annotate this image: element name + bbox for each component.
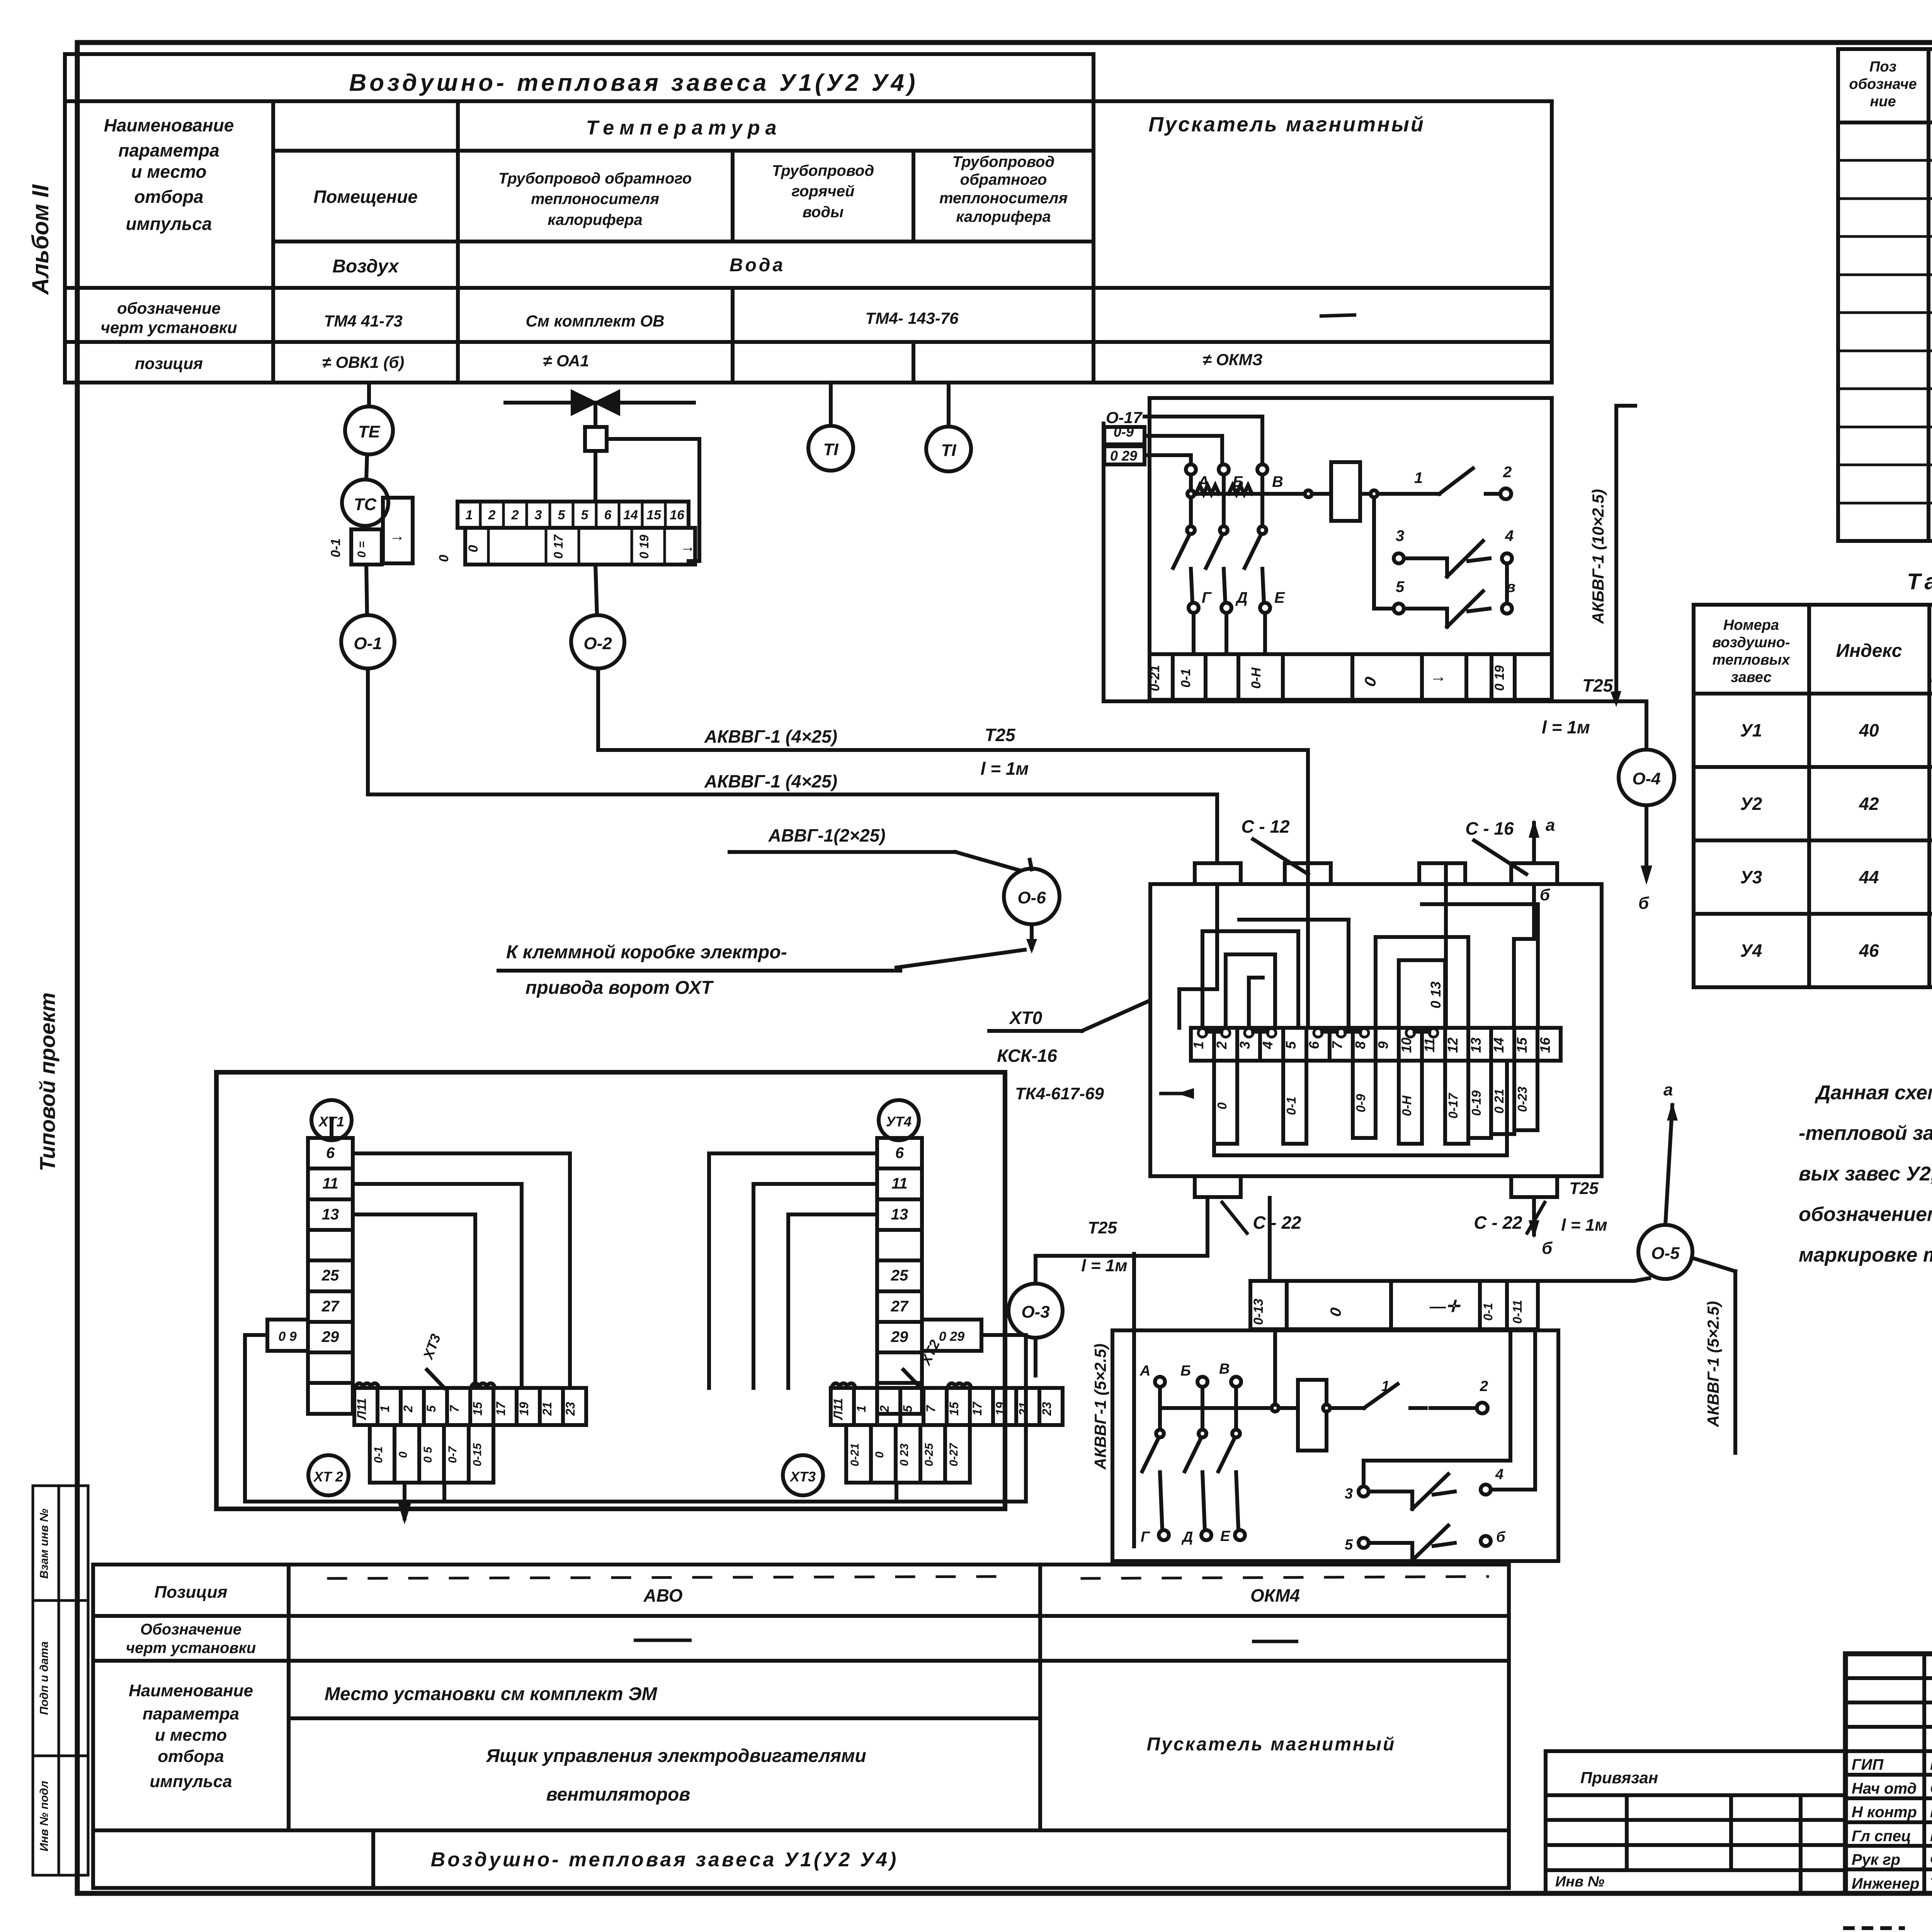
svg-text:0-25: 0-25 [923,1443,935,1466]
svg-text:б: б [1638,894,1650,913]
svg-text:завес: завес [1731,669,1771,685]
svg-text:Обозначение: Обозначение [140,1621,241,1638]
svg-text:АКВВГ-1 (5×2.5): АКВВГ-1 (5×2.5) [1704,1301,1722,1427]
svg-text:Температура: Температура [586,117,782,139]
svg-text:Трубопровод обратного: Трубопровод обратного [498,170,692,187]
svg-text:Привязан: Привязан [1580,1769,1658,1787]
svg-text:2: 2 [1214,1041,1230,1049]
svg-text:О-4: О-4 [1632,769,1660,788]
svg-text:Индекс: Индекс [1836,641,1902,661]
svg-text:АВО: АВО [643,1585,682,1605]
svg-text:воды: воды [803,204,844,221]
svg-text:Инв №: Инв № [1555,1874,1604,1890]
svg-text:импульса: импульса [150,1772,232,1791]
svg-text:1: 1 [1381,1378,1389,1395]
svg-text:Типовой проект: Типовой проект [35,992,60,1171]
svg-text:обозначе: обозначе [1849,76,1917,92]
svg-text:калорифера: калорифера [548,211,642,228]
svg-text:Т25: Т25 [1582,675,1614,696]
svg-text:Инженер: Инженер [1852,1875,1919,1892]
svg-text:Б: Б [1233,473,1243,490]
svg-text:2: 2 [401,1405,415,1413]
svg-text:Т25: Т25 [985,725,1016,745]
svg-text:29: 29 [321,1328,339,1345]
svg-text:калорифера: калорифера [956,208,1051,225]
svg-text:Трубопровод: Трубопровод [952,153,1054,170]
svg-text:С - 22: С - 22 [1253,1213,1301,1233]
svg-text:19: 19 [993,1402,1007,1416]
svg-text:13: 13 [891,1206,908,1223]
svg-text:Л11: Л11 [831,1398,845,1420]
svg-text:в: в [1506,578,1515,595]
svg-text:0 9: 0 9 [278,1329,296,1344]
svg-text:импульса: импульса [126,214,212,234]
svg-text:Н контр: Н контр [1852,1804,1917,1821]
svg-text:параметра: параметра [118,140,219,160]
svg-text:19: 19 [517,1402,531,1416]
svg-text:Инв № подл: Инв № подл [38,1781,51,1851]
svg-text:А: А [1139,1363,1150,1379]
svg-text:С - 12: С - 12 [1241,816,1290,837]
svg-text:У4: У4 [1740,940,1762,961]
svg-text:l = 1м: l = 1м [1081,1256,1127,1275]
svg-text:вых завес У2, У3, У4 с: вых завес У2, У3, У4 с указанием в 0 инд… [1799,1163,1932,1185]
svg-text:Д: Д [1235,589,1248,606]
svg-text:l = 1м: l = 1м [1561,1216,1607,1235]
svg-text:13: 13 [322,1206,339,1223]
svg-text:0 19: 0 19 [1492,665,1507,691]
svg-text:Т25: Т25 [1088,1218,1117,1237]
svg-text:29: 29 [891,1328,908,1345]
svg-text:теплоносителя: теплоносителя [531,190,659,207]
svg-text:б: б [1496,1529,1506,1545]
svg-text:воздушно-: воздушно- [1712,634,1790,651]
svg-text:отбора: отбора [158,1747,224,1766]
svg-text:0-15: 0-15 [471,1443,484,1466]
svg-text:О-3: О-3 [1021,1303,1049,1321]
svg-text:25: 25 [321,1267,339,1284]
svg-text:5: 5 [901,1405,915,1412]
svg-text:15: 15 [646,508,662,522]
svg-text:Е: Е [1274,589,1285,606]
svg-text:40: 40 [1859,720,1879,740]
svg-text:АКВВГ-1 (4×25): АКВВГ-1 (4×25) [704,726,837,747]
svg-text:2: 2 [1503,464,1512,481]
svg-text:4: 4 [1505,527,1514,544]
svg-text:—✛: —✛ [1429,1297,1461,1315]
svg-text:7: 7 [1329,1041,1345,1049]
svg-text:→: → [1430,667,1447,686]
svg-text:Номера: Номера [1723,617,1779,633]
svg-text:5: 5 [558,508,566,522]
svg-text:обозначением аппаратов , п: обозначением аппаратов , приборов и клем… [1799,1203,1932,1226]
svg-text:0 13: 0 13 [1428,981,1444,1009]
svg-text:маркировке траса согласно: маркировке траса согласно таблице примен… [1799,1244,1932,1266]
svg-text:6: 6 [1306,1041,1322,1049]
svg-text:0-9: 0-9 [1354,1094,1368,1112]
svg-text:21: 21 [1017,1402,1031,1416]
svg-text:привода ворот ОХТ: привода ворот ОХТ [526,978,714,998]
svg-text:Альбом II: Альбом II [27,184,53,295]
svg-text:10: 10 [1398,1037,1414,1053]
svg-text:б: б [1540,886,1550,904]
svg-text:23: 23 [563,1402,577,1416]
svg-text:ТІ: ТІ [823,440,838,459]
svg-text:46: 46 [1859,940,1879,961]
svg-text:ТЕ: ТЕ [358,422,381,441]
svg-text:5: 5 [581,508,589,522]
svg-text:1: 1 [1414,469,1423,486]
svg-text:3: 3 [535,508,542,522]
svg-text:вентиляторов: вентиляторов [546,1784,690,1805]
svg-text:0-21: 0-21 [849,1443,861,1466]
svg-text:У3: У3 [1740,867,1762,887]
svg-text:отбора: отбора [134,187,203,207]
svg-text:l = 1м: l = 1м [1542,717,1590,737]
svg-text:0: 0 [873,1451,886,1458]
svg-text:21: 21 [540,1402,554,1416]
svg-text:2: 2 [511,508,519,522]
svg-text:ТМ4- 143-76: ТМ4- 143-76 [866,309,959,327]
svg-text:0-27: 0-27 [947,1443,960,1466]
svg-text:0-Н: 0-Н [1249,667,1264,689]
svg-text:0: 0 [1215,1102,1229,1109]
svg-text:0-23: 0-23 [1515,1087,1529,1112]
svg-text:Тихонова: Тихонова [1930,1875,1932,1892]
svg-text:1: 1 [466,508,473,522]
svg-text:А: А [1197,473,1209,490]
svg-text:0 21: 0 21 [1492,1089,1506,1114]
svg-text:6: 6 [895,1145,904,1162]
svg-text:4: 4 [1260,1041,1276,1049]
svg-text:15: 15 [471,1401,485,1416]
svg-text:0-1: 0-1 [1179,668,1193,687]
svg-text:Кирсанов: Кирсанов [1930,1756,1932,1773]
svg-text:4: 4 [1495,1466,1503,1483]
svg-text:0-1: 0-1 [372,1446,385,1463]
svg-text:Помещение: Помещение [313,187,418,207]
svg-text:27: 27 [321,1298,340,1315]
svg-text:АКБВГ-1 (10×2.5): АКБВГ-1 (10×2.5) [1589,489,1607,624]
svg-text:7: 7 [447,1405,461,1412]
svg-text:Воздух: Воздух [332,256,400,277]
svg-text:5: 5 [1396,578,1405,595]
svg-text:Вода: Вода [730,255,785,276]
svg-text:горячей: горячей [792,183,855,200]
svg-text:44: 44 [1859,867,1879,887]
svg-text:0-17: 0-17 [1446,1092,1460,1119]
svg-text:Взам инв №: Взам инв № [38,1509,51,1578]
svg-text:ХТ0: ХТ0 [1009,1008,1043,1028]
svg-text:В: В [1272,473,1283,490]
svg-text:5: 5 [1345,1537,1353,1553]
svg-text:ХТ3: ХТ3 [789,1469,816,1485]
svg-text:l = 1м: l = 1м [981,759,1029,779]
svg-text:16: 16 [1537,1037,1553,1053]
svg-text:Воздушно- тепловая завеса У: Воздушно- тепловая завеса У1(У2 У4) [431,1849,899,1871]
svg-text:теплоносителя: теплоносителя [939,190,1068,207]
svg-text:Федорков: Федорков [1930,1851,1932,1868]
svg-text:0: 0 [466,545,481,552]
svg-text:Е: Е [1220,1528,1231,1544]
svg-text:АВВГ-1(2×25): АВВГ-1(2×25) [768,825,885,845]
svg-text:0 =: 0 = [355,541,368,558]
svg-text:Нач отд: Нач отд [1852,1780,1917,1797]
svg-text:параметра: параметра [143,1704,239,1723]
svg-text:6: 6 [604,508,612,522]
svg-text:5: 5 [1283,1041,1299,1049]
svg-text:Ящик управления электродвиг: Ящик управления электродвигателями [485,1746,866,1766]
svg-text:ГИП: ГИП [1852,1756,1884,1773]
svg-text:АКВВГ-1 (5×2.5): АКВВГ-1 (5×2.5) [1091,1344,1109,1470]
svg-text:0: 0 [397,1451,410,1458]
svg-text:К клеммной коробке электр: К клеммной коробке электро- [506,942,787,963]
svg-text:17: 17 [970,1401,984,1416]
svg-text:КСК-16: КСК-16 [997,1046,1057,1066]
svg-text:тепловых: тепловых [1713,652,1791,668]
svg-text:42: 42 [1859,794,1879,814]
svg-text:11: 11 [322,1175,338,1192]
svg-text:6: 6 [326,1145,335,1162]
svg-text:С - 22: С - 22 [1474,1213,1522,1233]
svg-text:черт установки: черт установки [100,318,237,337]
svg-text:1: 1 [378,1405,392,1412]
svg-text:О-5: О-5 [1651,1244,1680,1263]
svg-text:0-1: 0-1 [328,538,343,557]
svg-text:позиция: позиция [135,354,203,372]
svg-text:3: 3 [1237,1041,1253,1049]
svg-text:25: 25 [891,1267,908,1284]
svg-text:3: 3 [1345,1486,1353,1502]
svg-text:Кузнецов: Кузнецов [1930,1804,1932,1821]
svg-text:УТ4: УТ4 [886,1114,912,1129]
svg-text:а: а [1663,1080,1673,1099]
svg-text:Рук гр: Рук гр [1852,1851,1900,1868]
svg-text:Наименование: Наименование [129,1681,253,1700]
svg-text:Подп и дата: Подп и дата [38,1641,51,1715]
svg-text:О-6: О-6 [1017,888,1046,907]
svg-text:16: 16 [670,508,685,522]
svg-text:О-1: О-1 [354,634,382,653]
svg-text:Гл спец: Гл спец [1852,1828,1911,1845]
svg-text:27: 27 [891,1298,909,1315]
svg-text:Место установки см комплек: Место установки см комплект ЭМ [325,1684,658,1704]
svg-text:14: 14 [623,508,638,522]
svg-text:ХТ 2: ХТ 2 [313,1469,343,1485]
svg-text:→: → [389,527,405,544]
svg-text:11: 11 [1422,1038,1437,1052]
svg-text:а: а [1546,816,1555,835]
svg-text:С - 16: С - 16 [1465,818,1514,838]
svg-text:ХТ1: ХТ1 [318,1114,344,1129]
svg-text:23: 23 [1040,1402,1054,1416]
svg-text:черт установки: черт установки [126,1639,256,1656]
svg-text:Воздушно- тепловая завеса: Воздушно- тепловая завеса У1(У2 У4) [349,70,918,96]
svg-text:Таблица применяемости и д: Таблица применяемости и длин трасс [1907,569,1932,594]
svg-text:Т25: Т25 [1569,1179,1599,1198]
svg-text:АКВВГ-1 (4×25): АКВВГ-1 (4×25) [704,771,837,791]
svg-text:0-21: 0-21 [1148,665,1162,691]
svg-text:обратного: обратного [960,171,1047,188]
svg-text:См комплект ОВ: См комплект ОВ [526,312,665,330]
svg-text:Поз: Поз [1869,59,1896,75]
svg-text:0-19: 0-19 [1469,1090,1483,1116]
svg-text:1: 1 [854,1405,868,1412]
svg-text:11: 11 [891,1175,908,1192]
svg-text:У2: У2 [1740,794,1762,814]
svg-text:Трубопровод: Трубопровод [772,162,874,179]
svg-text:≠ ОА1: ≠ ОА1 [543,352,589,370]
svg-text:Данная схема внешних про: Данная схема внешних проводок выполнена … [1815,1082,1932,1104]
svg-text:9: 9 [1375,1041,1391,1049]
svg-text:14: 14 [1491,1037,1507,1053]
svg-text:Б: Б [1180,1363,1191,1379]
svg-text:ТМ4 41-73: ТМ4 41-73 [324,312,403,330]
svg-text:Позиция: Позиция [154,1583,227,1602]
svg-text:0 29: 0 29 [1110,448,1137,464]
svg-text:2: 2 [878,1405,891,1413]
svg-text:2: 2 [488,508,496,522]
svg-text:0-13: 0-13 [1251,1299,1266,1325]
svg-text:0 19: 0 19 [637,535,651,559]
svg-text:5: 5 [424,1405,438,1412]
svg-text:-тепловой завесы У1 и д: -тепловой завесы У1 и действительна для … [1799,1122,1932,1145]
svg-text:Д: Д [1181,1529,1193,1545]
svg-text:Кузнецов: Кузнецов [1930,1828,1932,1845]
svg-text:б: б [1542,1239,1553,1258]
svg-text:и место: и место [131,162,206,182]
svg-text:ние: ние [1870,94,1896,110]
svg-text:≠ ОКМЗ: ≠ ОКМЗ [1202,350,1262,369]
svg-text:0-1: 0-1 [1481,1303,1495,1321]
svg-text:7: 7 [924,1405,938,1412]
svg-text:обозначение: обозначение [117,299,221,317]
svg-text:17: 17 [494,1401,508,1416]
svg-text:0-7: 0-7 [446,1446,459,1463]
svg-text:0: 0 [437,554,451,562]
svg-text:15: 15 [947,1401,961,1416]
svg-text:Наименование: Наименование [104,115,234,135]
svg-text:ОКМ4: ОКМ4 [1250,1585,1300,1605]
svg-text:0-1: 0-1 [1284,1097,1298,1115]
svg-text:→: → [680,538,696,555]
svg-text:0 17: 0 17 [551,534,565,559]
svg-text:У1: У1 [1740,720,1762,740]
svg-text:О-2: О-2 [583,634,612,653]
svg-text:Л11: Л11 [355,1398,369,1420]
svg-text:ТІ: ТІ [941,441,956,460]
svg-text:8: 8 [1352,1041,1368,1049]
svg-text:12: 12 [1445,1037,1461,1053]
svg-text:В: В [1219,1361,1230,1377]
svg-text:Пускатель магнитный: Пускатель магнитный [1147,1734,1396,1755]
svg-text:0-Н: 0-Н [1400,1095,1414,1116]
svg-text:0 5: 0 5 [422,1446,434,1463]
svg-text:3: 3 [1396,527,1404,544]
svg-text:≠ ОВК1 (б): ≠ ОВК1 (б) [322,353,405,371]
svg-text:0 29: 0 29 [939,1329,964,1344]
svg-text:ТС: ТС [354,495,377,514]
svg-text:Пускатель магнитный: Пускатель магнитный [1148,113,1425,136]
svg-text:и место: и место [155,1726,227,1745]
svg-text:Г: Г [1202,589,1212,606]
svg-text:0-9: 0-9 [1114,424,1134,440]
svg-text:Г: Г [1141,1529,1150,1545]
svg-text:0-11: 0-11 [1510,1300,1524,1324]
svg-text:0 23: 0 23 [898,1443,911,1466]
svg-text:13: 13 [1468,1037,1484,1053]
svg-text:15: 15 [1514,1037,1530,1053]
svg-text:Огурцов: Огурцов [1930,1780,1932,1797]
svg-text:2: 2 [1480,1378,1488,1395]
svg-text:1: 1 [1190,1041,1206,1049]
svg-text:ТК4-617-69: ТК4-617-69 [1015,1084,1104,1103]
